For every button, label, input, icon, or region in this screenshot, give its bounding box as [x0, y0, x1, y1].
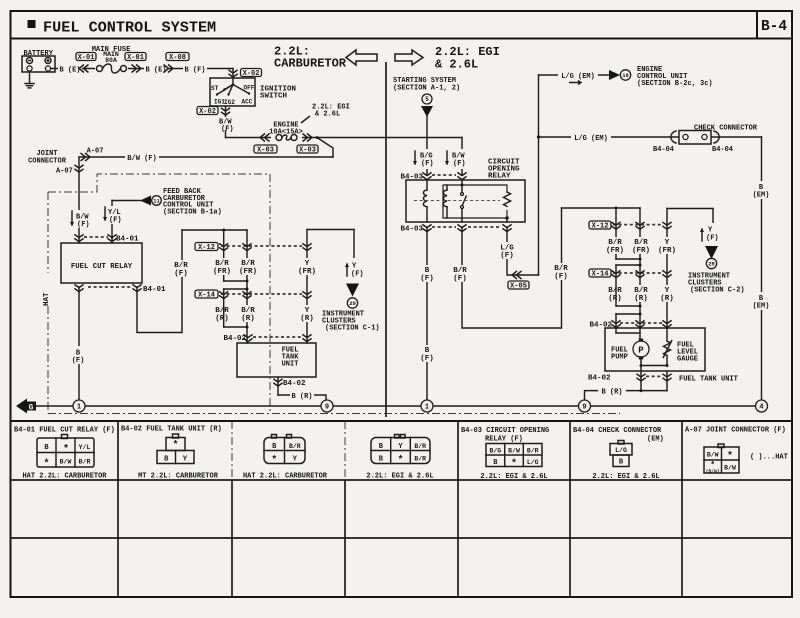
svg-text:GAUGE: GAUGE [677, 356, 698, 364]
section divider line between carburetor and EGI halves [385, 62, 387, 417]
svg-text:2.2L: EGI & 2.6L: 2.2L: EGI & 2.6L [480, 473, 547, 481]
svg-text:B/R: B/R [79, 459, 91, 466]
svg-text:B/W (F): B/W (F) [127, 155, 156, 163]
svg-text:B/W: B/W [707, 452, 719, 459]
connector A-07 symbol [74, 165, 83, 168]
title bullet square [28, 20, 36, 28]
wire B/W right drop [461, 138, 463, 176]
merge bridge above B4-02 left [223, 294, 225, 327]
svg-text:(FR): (FR) [298, 268, 316, 276]
svg-text:FUEL CUT RELAY: FUEL CUT RELAY [71, 263, 133, 271]
svg-text:B4-01 FUEL CUT RELAY (F): B4-01 FUEL CUT RELAY (F) [14, 427, 115, 435]
svg-text:16: 16 [622, 72, 629, 79]
svg-text:10A<15A>: 10A<15A> [269, 129, 303, 137]
ground G arrow [16, 399, 27, 414]
svg-text:Y: Y [665, 287, 670, 295]
circled 1 left [73, 400, 85, 412]
svg-text:(SECTION B-1a): (SECTION B-1a) [163, 208, 222, 216]
feedback carburetor control unit wire [112, 200, 141, 202]
circled 5 [422, 94, 432, 104]
legend B4-02 MT connector [173, 434, 179, 438]
svg-text:2.2L: EGI & 2.6L: 2.2L: EGI & 2.6L [366, 473, 433, 481]
svg-text:1: 1 [77, 404, 81, 412]
connector box X-05 [508, 281, 529, 289]
svg-text:X-01: X-01 [127, 54, 144, 62]
svg-text:(R): (R) [241, 315, 255, 323]
svg-text:B: B [425, 267, 430, 275]
merge bridge right above B4-02 [615, 273, 617, 306]
connector box X-12 left [195, 243, 218, 251]
svg-text:L/G: L/G [615, 447, 627, 454]
svg-text:(FR): (FR) [632, 247, 650, 255]
label L/G (EM) lower [571, 132, 611, 143]
svg-text:MT 2.2L: CARBURETOR: MT 2.2L: CARBURETOR [138, 473, 219, 481]
svg-text:4: 4 [759, 404, 763, 412]
wire battery B(E) feed [51, 68, 233, 70]
connector chevron left of main fuse [84, 65, 89, 73]
svg-text:B4-02: B4-02 [588, 375, 611, 383]
label L/G (F) [496, 242, 520, 259]
svg-text:RELAY (F): RELAY (F) [485, 436, 523, 444]
svg-text:B/R: B/R [215, 307, 229, 315]
svg-text:(R): (R) [215, 315, 229, 323]
label B/R (FR) col2 [236, 258, 260, 275]
svg-text:ACC: ACC [242, 99, 253, 106]
svg-text:(R): (R) [608, 295, 622, 303]
wire B (F) right to bus [426, 227, 428, 400]
svg-text:Y: Y [305, 307, 310, 315]
svg-text:(F): (F) [453, 275, 467, 283]
svg-text:X-02: X-02 [243, 70, 260, 78]
legend row line 2 [11, 537, 793, 539]
svg-text:5: 5 [425, 96, 429, 103]
EGI right arrow [395, 50, 423, 65]
label B/W (F) below ignition [215, 117, 239, 130]
svg-text:(SECTION A-1, 2): (SECTION A-1, 2) [393, 84, 460, 92]
starting system arrow [421, 106, 433, 117]
label Y (FR) left [295, 258, 319, 275]
label B (F) right upper [416, 265, 438, 282]
svg-text:B4-03 CIRCUIT OPENING: B4-03 CIRCUIT OPENING [461, 427, 549, 435]
fuel level gauge symbol [666, 328, 668, 341]
circled 1 right [421, 400, 433, 412]
relay resistor [504, 192, 511, 206]
label Y (F) with up arrow left [353, 230, 355, 260]
svg-text:(F): (F) [420, 275, 434, 283]
connector box X-01 right [125, 53, 146, 61]
svg-text:X-03: X-03 [299, 146, 316, 154]
label L/G (EM) upper [558, 70, 598, 81]
svg-text:(F): (F) [72, 357, 85, 365]
connector X-02 top symbol [228, 70, 237, 73]
main fuse MAIN 80A [95, 63, 128, 75]
label B (F) right lower [416, 345, 438, 362]
svg-text:*: * [271, 455, 277, 467]
wire B (R) left [278, 395, 326, 400]
connector chevron right of main fuse [132, 65, 137, 73]
svg-text:CARBURETOR: CARBURETOR [274, 57, 347, 71]
wire relay out B/R [137, 230, 182, 333]
legend A-07 connector [718, 444, 724, 448]
label B (EM) lower [750, 292, 774, 310]
circled 9 right [579, 400, 591, 412]
label B/G (F) [410, 149, 444, 169]
connector box X-08 [166, 53, 189, 61]
circled 11 [152, 196, 162, 206]
legend B4-02 EGI connector [395, 435, 400, 439]
connector chevron A-07 run [81, 153, 86, 161]
svg-text:(F): (F) [453, 160, 466, 168]
wire B/R FR 1 [223, 230, 225, 281]
wire ignition to engine fuse run [226, 137, 318, 139]
svg-text:Y/L: Y/L [79, 444, 91, 451]
svg-text:2.2L: EGI & 2.6L: 2.2L: EGI & 2.6L [592, 473, 659, 481]
svg-text:B4-02: B4-02 [283, 380, 306, 388]
fuel tank unit left box [237, 343, 316, 377]
wire ignition switch output [225, 106, 227, 138]
label Y (FR) right [655, 237, 679, 254]
label Y (F) right with arrow [712, 209, 714, 238]
legend column dashed x232 [231, 421, 233, 480]
svg-text:(F): (F) [174, 270, 188, 278]
svg-text:A-07: A-07 [56, 168, 73, 176]
svg-text:B4-02 FUEL TANK UNIT (R): B4-02 FUEL TANK UNIT (R) [121, 426, 222, 434]
page number box divider [756, 11, 758, 39]
svg-text:9: 9 [325, 404, 329, 412]
svg-text:B4-01: B4-01 [143, 286, 166, 294]
circuit opening relay K2 box [406, 180, 525, 222]
wire Y FR [307, 229, 354, 231]
HAT region dash-dot outline [48, 174, 270, 192]
ground from battery [29, 72, 31, 83]
label B/R (R) col2 [236, 305, 260, 322]
connector X-14 right row [613, 272, 662, 274]
svg-text:CONNECTOR: CONNECTOR [28, 158, 67, 166]
feedback unit arrow [140, 196, 151, 206]
pump gauge bottom bridge [640, 357, 642, 371]
svg-text:*: * [727, 451, 733, 463]
connector B4-02 right bottom row [640, 371, 642, 391]
svg-text:L/G: L/G [527, 459, 539, 466]
fuel tank unit right box [639, 306, 641, 341]
merge bridge right X12-X14 [616, 258, 640, 260]
wire B/R (F) right [462, 208, 562, 328]
label B/R (R) right 2 [629, 285, 653, 302]
svg-text:B/R: B/R [289, 443, 301, 450]
wire B/W(F) joint connector run [79, 156, 333, 158]
arrow to ECU [609, 70, 620, 80]
svg-text:B-4: B-4 [761, 19, 787, 35]
svg-text:X-02: X-02 [199, 108, 216, 116]
svg-text:HAT: HAT [43, 292, 51, 306]
connector X-12 left row [221, 245, 302, 247]
relay contact [461, 180, 463, 185]
legend column line x682 [681, 421, 683, 597]
svg-text:B/W: B/W [724, 465, 736, 472]
svg-text:29: 29 [349, 300, 356, 307]
svg-text:B/R: B/R [241, 260, 255, 268]
legend B4-01 connector [62, 435, 68, 439]
svg-text:(F): (F) [500, 252, 514, 260]
svg-text:29: 29 [708, 260, 715, 267]
label B/R (FR) right 1 [603, 237, 627, 254]
wire check connector run [539, 136, 762, 138]
svg-text:BATTERY: BATTERY [24, 50, 54, 58]
svg-text:(R): (R) [300, 315, 314, 323]
relay coil 1 [426, 180, 428, 190]
svg-text:(F): (F) [706, 235, 719, 243]
svg-text:B4-04 CHECK CONNECTOR: B4-04 CHECK CONNECTOR [573, 427, 662, 435]
svg-text:X-03: X-03 [257, 146, 274, 154]
svg-text:B/R: B/R [174, 262, 188, 270]
svg-text:B (F): B (F) [184, 66, 205, 74]
wire drop to ignition switch [232, 69, 234, 79]
svg-text:B (E): B (E) [59, 66, 80, 74]
svg-text:B/W: B/W [60, 459, 72, 466]
svg-text:HAT 2.2L: CARBURETOR: HAT 2.2L: CARBURETOR [22, 473, 107, 481]
svg-text:(FR): (FR) [606, 247, 624, 255]
svg-text:B (R): B (R) [291, 393, 312, 401]
ignition switch S1 box [210, 78, 255, 106]
svg-text:A-07 JOINT CONNECTOR (F): A-07 JOINT CONNECTOR (F) [685, 427, 786, 435]
wire fuel cut relay to ground bus [78, 287, 80, 400]
svg-text:X-01: X-01 [78, 54, 95, 62]
svg-text:1: 1 [425, 404, 429, 412]
title bar separator line [11, 38, 793, 40]
connector box X-14 right [589, 269, 611, 277]
svg-text:11: 11 [153, 197, 160, 204]
fuel pump P motor [633, 341, 649, 357]
wire Y FR right [667, 208, 713, 210]
circled 9 left [321, 400, 333, 412]
ground bus line [34, 405, 762, 407]
label B/R (F) left column [169, 260, 193, 277]
relay coil 2 [446, 185, 448, 190]
svg-text:9: 9 [582, 404, 586, 412]
label Y (R) left [295, 305, 319, 322]
label B/R (FR) right 2 [629, 237, 653, 254]
label B/R (F) right col [448, 265, 472, 282]
svg-text:B/R: B/R [414, 443, 426, 450]
label B/R (F) riser [549, 263, 573, 280]
wire B/R FR right 2 [639, 208, 641, 306]
circled 4 [756, 400, 768, 412]
circled 29 left [347, 298, 357, 308]
svg-text:(FR): (FR) [239, 268, 257, 276]
connector box X-02 bottom [197, 107, 218, 115]
connector chevron left of engine fuse [265, 134, 270, 142]
svg-text:( )...HAT: ( )...HAT [750, 454, 788, 462]
dash-dot bottom line [48, 413, 620, 415]
label B (F) left [68, 346, 90, 364]
wire diagonal to joint connector run [317, 138, 333, 158]
svg-text:FUEL CONTROL SYSTEM: FUEL CONTROL SYSTEM [43, 19, 216, 37]
wire B (EM) drop to bus [761, 137, 763, 400]
label B (EM) upper [750, 181, 774, 199]
svg-text:X-14: X-14 [592, 270, 609, 278]
svg-text:B/R: B/R [634, 239, 648, 247]
circled 16 [620, 70, 630, 80]
connector X-14 left row [221, 293, 302, 295]
svg-text:Y: Y [305, 260, 310, 268]
svg-text:B/R: B/R [215, 260, 229, 268]
connector box X-01 left [76, 53, 96, 61]
connector chevron right of engine fuse [303, 134, 308, 142]
svg-text:(R): (R) [660, 295, 674, 303]
battery B1 [22, 56, 55, 72]
svg-text:(FR): (FR) [658, 247, 676, 255]
svg-text:B/R: B/R [608, 239, 622, 247]
svg-text:B/R: B/R [241, 307, 255, 315]
svg-text:B/R: B/R [527, 448, 539, 455]
carburetor left arrow [346, 50, 377, 65]
legend B4-04 connector [618, 441, 624, 445]
connector B4-01 top row [84, 236, 108, 238]
svg-text:X-08: X-08 [169, 54, 186, 62]
svg-text:X-12: X-12 [592, 222, 609, 230]
merge bridge X12-X14 left [224, 280, 247, 282]
svg-text:& 2.6L: & 2.6L [435, 58, 478, 72]
svg-text:B/R: B/R [453, 267, 467, 275]
connector X-12 right row [613, 224, 662, 226]
svg-text:A-07: A-07 [87, 148, 104, 156]
ignition switch contacts [217, 85, 233, 95]
svg-text:X-05: X-05 [510, 282, 527, 290]
label B(E) 2 [144, 64, 168, 74]
svg-text:(B/W): (B/W) [706, 468, 720, 474]
label Y/L (F) with arrow [100, 206, 122, 224]
wire B/R FR 2 [246, 230, 248, 327]
svg-text:IG2: IG2 [224, 99, 235, 106]
svg-text:B4-03: B4-03 [400, 226, 423, 234]
label B/W (F) with arrow [66, 210, 92, 228]
svg-text:(F): (F) [351, 271, 364, 279]
legend column dashed x345 [344, 421, 346, 480]
svg-text:(EM): (EM) [753, 192, 770, 200]
svg-text:FUEL TANK UNIT: FUEL TANK UNIT [679, 376, 738, 384]
relay inner box [443, 185, 507, 218]
svg-text:& 2.6L: & 2.6L [315, 111, 340, 119]
svg-text:B/R: B/R [554, 265, 568, 273]
label B(F) main feed [183, 64, 207, 74]
connector box X-12 right [589, 221, 611, 229]
label B(E) 1 [58, 64, 82, 74]
svg-text:*: * [63, 444, 69, 456]
svg-text:*: * [43, 458, 49, 470]
connector chevron X-05 [517, 271, 522, 279]
svg-text:(SECTION C-2): (SECTION C-2) [690, 287, 745, 295]
engine fuse 10A [271, 132, 302, 143]
fuel cut relay K1 box [61, 243, 142, 283]
svg-text:B4-04: B4-04 [653, 146, 674, 154]
svg-text:B/R: B/R [414, 456, 426, 463]
label B/W (F) run [125, 152, 159, 162]
legend B4-02 HAT connector [272, 435, 277, 439]
svg-text:B (E): B (E) [145, 66, 166, 74]
label Y (R) right [655, 285, 679, 302]
svg-text:B/R: B/R [634, 287, 648, 295]
svg-text:OFF: OFF [244, 85, 255, 92]
relay mechanical dashed link [414, 200, 500, 202]
legend table top line [11, 420, 793, 422]
svg-text:(F): (F) [221, 126, 234, 134]
svg-text:(F): (F) [109, 217, 122, 225]
wire top header right tank column [562, 207, 641, 209]
instrument cluster triangle right [705, 246, 718, 259]
svg-text:SWITCH: SWITCH [260, 93, 287, 101]
svg-text:X-14: X-14 [198, 291, 215, 299]
svg-text:(FR): (FR) [213, 268, 231, 276]
svg-text:UNIT: UNIT [282, 361, 299, 369]
svg-text:L/G (EM): L/G (EM) [561, 73, 595, 81]
svg-text:B (R): B (R) [601, 389, 622, 397]
svg-text:80A: 80A [105, 57, 117, 64]
legend column line x118 [117, 421, 119, 597]
svg-text:(EM): (EM) [647, 436, 664, 444]
svg-text:*: * [511, 458, 517, 470]
connector box X-03 right [297, 145, 318, 153]
legend B4-03 connector [486, 444, 542, 467]
legend row line 1 [11, 479, 793, 481]
svg-text:B/R: B/R [608, 287, 622, 295]
svg-text:(R): (R) [634, 295, 648, 303]
legend column line x458 [457, 421, 459, 597]
svg-text:HAT 2.2L: CARBURETOR: HAT 2.2L: CARBURETOR [243, 473, 328, 481]
connector chevron X-08 [164, 65, 169, 73]
svg-text:ST: ST [211, 85, 219, 92]
svg-text:PUMP: PUMP [611, 354, 628, 362]
wire B/R FR right 1 [615, 208, 617, 259]
svg-text:L/G (EM): L/G (EM) [574, 135, 608, 143]
svg-text:P: P [638, 346, 644, 356]
circled 29 right [706, 258, 716, 268]
svg-text:(F): (F) [554, 273, 568, 281]
label B/R (R) right 1 [603, 285, 627, 302]
connector box X-02 top [241, 69, 262, 77]
wire Y/L drop [111, 201, 113, 244]
connector B4-02 left bottom [277, 377, 279, 395]
svg-text:G: G [29, 404, 34, 413]
svg-text:Y: Y [665, 239, 670, 247]
svg-text:(F): (F) [420, 355, 434, 363]
wire L/G EM riser [538, 75, 540, 275]
svg-text:B: B [425, 347, 430, 355]
label B/W (F) right [443, 149, 479, 169]
wire to engine control unit [539, 74, 610, 76]
svg-text:(EM): (EM) [753, 303, 770, 311]
svg-text:*: * [172, 440, 178, 452]
svg-text:B4-04: B4-04 [712, 146, 733, 154]
wire top header left tank column [182, 229, 247, 231]
svg-text:(SECTION C-1): (SECTION C-1) [325, 325, 380, 333]
wire engine fuse to EGI section [317, 137, 462, 139]
connector box X-14 left [195, 290, 218, 298]
wire B (R) right to bus [641, 390, 667, 392]
label B/R (R) col1 [210, 305, 234, 322]
svg-text:B/W: B/W [508, 448, 520, 455]
wire starting system drop [426, 115, 428, 175]
connector B4-01 bottom row [88, 286, 132, 288]
label B/R (FR) col1 [210, 258, 234, 275]
svg-text:(SECTION B-2c, 3c): (SECTION B-2c, 3c) [637, 80, 713, 88]
svg-text:(F): (F) [77, 221, 90, 229]
instrument cluster triangle left [346, 284, 359, 297]
svg-text:(F): (F) [421, 160, 434, 168]
wire A-07 drop to fuel cut relay [78, 157, 80, 243]
svg-text:B/G: B/G [489, 448, 501, 455]
connector box X-03 left [254, 145, 277, 153]
svg-text:*: * [397, 455, 403, 467]
